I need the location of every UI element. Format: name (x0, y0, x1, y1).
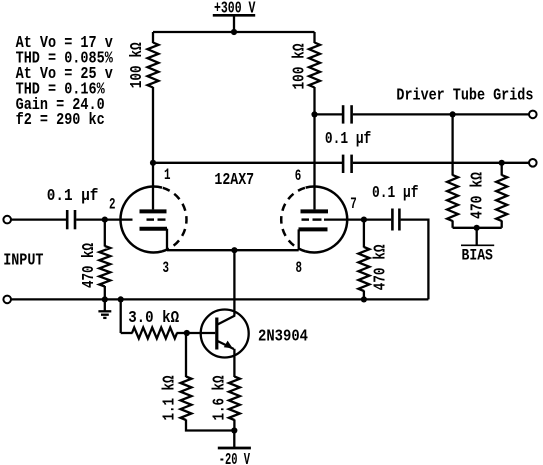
wire: input 470k top lead (104, 220, 106, 247)
resistor 1.1k (181, 377, 192, 421)
node: line2 / 470k dot (499, 160, 505, 166)
svg-text:470 kΩ: 470 kΩ (371, 244, 390, 290)
node B: right plate junction dot (311, 111, 317, 117)
wire: right cathode step (298, 229, 300, 250)
node: line1 / 470k dot (450, 111, 456, 117)
node: ground dot (102, 296, 108, 302)
terminal: output 2 circle (529, 159, 537, 167)
svg-text:BIAS: BIAS (462, 246, 493, 264)
wire: right 100k bottom lead to node B (313, 87, 315, 114)
svg-text:Driver Tube Grids: Driver Tube Grids (396, 86, 533, 105)
tube left cathode bar (140, 227, 168, 231)
svg-text:470 kΩ: 470 kΩ (80, 243, 99, 288)
tube left grid dashes (147, 218, 155, 220)
wire: 470k bias-right bottom lead (501, 221, 503, 228)
svg-text:3: 3 (163, 259, 170, 277)
wire: output line 1 (right plate to cap) (315, 113, 343, 115)
node: right grid dot (361, 217, 367, 223)
wire: output line 2 (left plate to cap) (153, 162, 342, 164)
wire: 3.0k left lead (121, 332, 133, 334)
wire: output line 1 to terminal (353, 113, 529, 115)
tube 12AX7 right triode envelope (solid arc) (306, 187, 348, 253)
resistor 470k bias left (447, 175, 458, 221)
svg-text:INPUT: INPUT (3, 251, 43, 270)
transistor Q1 2N3904 circle (201, 310, 249, 358)
power -20 V terminal (233, 431, 235, 449)
wire: right 470k top lead (363, 220, 365, 248)
svg-text:100 kΩ: 100 kΩ (291, 44, 310, 90)
svg-text:f2 = 290 kc: f2 = 290 kc (16, 111, 105, 130)
svg-text:2N3904: 2N3904 (258, 327, 308, 346)
transistor emitter diagonal (218, 341, 234, 349)
wire: 1.1k top lead (185, 333, 187, 377)
node: -20V junction dot (231, 427, 237, 433)
svg-text:0.1 µf: 0.1 µf (47, 187, 99, 206)
resistor 470k input grid leak (99, 246, 110, 287)
wire: bias resistor bottom bus (453, 227, 502, 229)
wire: left 100k top lead (152, 32, 154, 43)
power BIAS terminal (476, 228, 478, 246)
capacitor 0.1uf right grid bypass (391, 209, 394, 231)
wire: collector riser (233, 250, 235, 316)
wire: cap to grid node (76, 218, 132, 220)
wire: +300V rail (153, 31, 315, 33)
wire: output line 2 to terminal (353, 162, 529, 164)
wire: bottom return line (11, 298, 428, 300)
resistor 470k bias right (496, 175, 507, 221)
svg-text:1.6 kΩ: 1.6 kΩ (211, 376, 230, 421)
resistor 100k right (plate load) (309, 43, 320, 88)
transistor emitter arrow (224, 341, 233, 349)
transistor collector diagonal (218, 316, 236, 325)
node: rail junction dot (231, 29, 237, 35)
terminal: input signal circle (3, 216, 11, 224)
wire: left 100k bottom lead to node A (152, 87, 154, 163)
node: base node dot (184, 330, 190, 336)
wire: 1.1k bottom lead and corner (186, 420, 234, 431)
node A: left plate junction dot (150, 160, 156, 166)
wire: 3.0k right lead (177, 332, 188, 334)
wire: base lead (187, 332, 215, 334)
wire: 470k bias-left bottom lead (451, 221, 453, 228)
wire: emitter lead down (233, 349, 235, 377)
wire: right 470k bottom lead (363, 291, 365, 300)
wire: right cap to corner and down (401, 220, 429, 300)
wire: tail tee down (120, 299, 122, 333)
resistor 1.6k (229, 377, 240, 421)
tube left triode envelope (dashed arc) (162, 188, 186, 252)
node: bias junction dot (474, 225, 480, 231)
power +300 V terminal (213, 14, 255, 17)
wire: 470k bias-left top lead (451, 114, 453, 175)
wire: cathode bus (167, 249, 299, 251)
node: cathode bus dot (231, 247, 237, 253)
capacitor 0.1uf input (66, 210, 69, 229)
wire: right 100k top lead (313, 32, 315, 43)
svg-text:+300 V: +300 V (214, 0, 256, 18)
svg-text:2: 2 (109, 196, 116, 214)
resistor 470k right cathode-grid (358, 247, 369, 291)
svg-text:3.0 kΩ: 3.0 kΩ (128, 309, 179, 328)
tube 12AX7 left triode envelope (solid arc) (120, 187, 162, 253)
svg-text:100 kΩ: 100 kΩ (128, 42, 147, 88)
svg-text:8: 8 (296, 259, 303, 277)
svg-text:-20 V: -20 V (219, 451, 251, 465)
tube right plate bar (301, 209, 329, 213)
wire: left cathode step (166, 229, 168, 251)
capacitor 0.1uf bottom output (342, 155, 345, 173)
wire: 470k bias-right top lead (501, 163, 503, 176)
terminal: output 1 circle (529, 111, 537, 119)
svg-text:0.1 µf: 0.1 µf (372, 184, 419, 203)
svg-text:1: 1 (164, 166, 171, 184)
resistor 100k left (plate load) (148, 43, 159, 88)
svg-text:0.1 µf: 0.1 µf (325, 130, 371, 149)
tube right cathode bar (299, 227, 328, 231)
node: input grid dot (102, 217, 108, 223)
svg-text:470 kΩ: 470 kΩ (469, 172, 488, 219)
tube right triode envelope (dashed arc) (281, 188, 305, 252)
transistor base bar (215, 318, 218, 350)
tube right grid dashes (302, 218, 310, 220)
terminal: input return circle (3, 296, 11, 304)
svg-text:1.1 kΩ: 1.1 kΩ (161, 376, 180, 421)
svg-text:7: 7 (350, 195, 357, 213)
wire: right grid lead to cap (324, 218, 391, 220)
capacitor 0.1uf top output (342, 105, 345, 123)
wire: 1.6k bottom lead (233, 420, 235, 431)
node: tail tee dot (118, 296, 124, 302)
wire: left plate lead down (152, 163, 154, 210)
node: right 470k bottom dot (361, 296, 367, 302)
wire: input to cap (11, 218, 66, 220)
svg-text:6: 6 (295, 167, 302, 185)
wire: right plate lead down (313, 114, 315, 209)
ground symbol (104, 299, 106, 311)
svg-text:12AX7: 12AX7 (214, 171, 254, 190)
wire: input 470k bottom lead (104, 286, 106, 299)
resistor 3.0k base (132, 328, 177, 339)
tube left plate bar (140, 209, 167, 213)
